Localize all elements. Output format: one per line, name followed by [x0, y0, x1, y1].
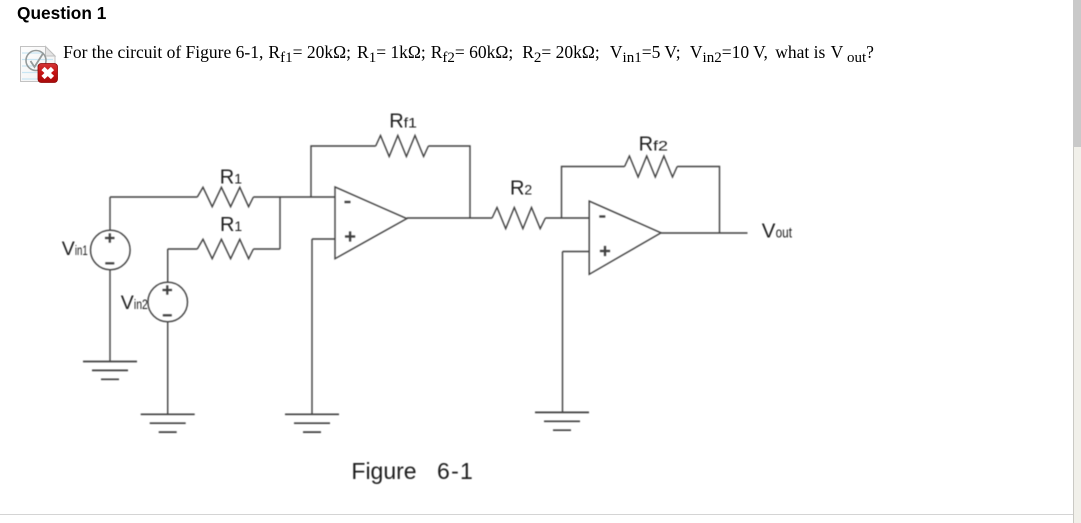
wire: U2 output	[661, 232, 748, 234]
wire: U2 + to ground	[562, 252, 564, 413]
resistor Rf2	[625, 156, 678, 177]
label Vin2	[121, 292, 148, 314]
label R1 (top)	[220, 167, 242, 189]
wire: Vin1 to ground	[109, 270, 111, 362]
label R1 (lower)	[220, 214, 242, 236]
svg-text:in2: in2	[134, 297, 148, 312]
wire: U1 output to U2 inverting input	[407, 217, 589, 219]
svg-text:V: V	[762, 220, 776, 243]
resistor R2	[492, 208, 545, 229]
svg-text:V: V	[62, 238, 75, 260]
op-amp U1	[335, 187, 407, 259]
svg-text:V: V	[121, 292, 134, 314]
question status icon: lined page with check circle and red X badge	[19, 44, 59, 86]
wire: junction riser node2 to node1	[279, 197, 281, 249]
svg-text:f1: f1	[404, 114, 418, 130]
wire: Vin2 top riser	[167, 249, 169, 282]
svg-text:1: 1	[234, 218, 242, 234]
ground (Vin1)	[83, 362, 137, 380]
wire: Rf1 feedback loop	[311, 146, 470, 218]
svg-text:R: R	[510, 178, 524, 200]
resistor Rf1	[376, 136, 429, 157]
svg-text:R: R	[639, 133, 653, 155]
voltage source Vin1	[91, 230, 131, 270]
svg-text:Figure: Figure	[351, 458, 416, 484]
bottom divider	[0, 514, 1073, 515]
label Rf1	[389, 110, 417, 132]
question text	[0, 43, 1, 45]
ground (Vin2)	[141, 414, 195, 432]
svg-text:out: out	[776, 225, 793, 242]
svg-text:R: R	[220, 214, 234, 236]
wire: U1 + to ground	[311, 239, 313, 414]
wire: Vin1 top riser	[109, 197, 111, 230]
svg-text:R: R	[389, 110, 403, 132]
voltage source Vin2	[148, 282, 188, 322]
label Rf2	[639, 133, 669, 155]
wire: node2 horizontal (Vin2/R1 lower)	[168, 248, 280, 250]
wire: node1 horizontal (Vin1/R1 to U1 inverting input)	[110, 196, 335, 198]
scrollbar	[1073, 0, 1081, 523]
op-amp U2	[589, 201, 661, 274]
label Vout	[762, 220, 793, 243]
svg-text:R: R	[220, 167, 234, 189]
svg-text:2: 2	[524, 182, 532, 198]
ground (U2 +)	[535, 412, 589, 430]
wire: Rf2 feedback loop	[562, 167, 720, 234]
svg-text:in1: in1	[75, 243, 88, 258]
wire: U2 non-inverting input	[563, 251, 590, 253]
wire: Vin2 to ground	[167, 322, 169, 415]
label R2	[510, 178, 532, 200]
header "Question 1"	[17, 5, 106, 22]
label Vin1	[62, 238, 88, 260]
svg-text:6-1: 6-1	[437, 458, 474, 484]
ground (U1 +)	[285, 414, 339, 432]
svg-text:f2: f2	[653, 137, 668, 153]
resistor R1 (top)	[197, 187, 253, 206]
label Figure 6-1	[351, 458, 474, 484]
resistor R1 (lower)	[197, 239, 253, 258]
svg-text:1: 1	[234, 171, 242, 187]
wire: U1 non-inverting input	[312, 238, 335, 240]
